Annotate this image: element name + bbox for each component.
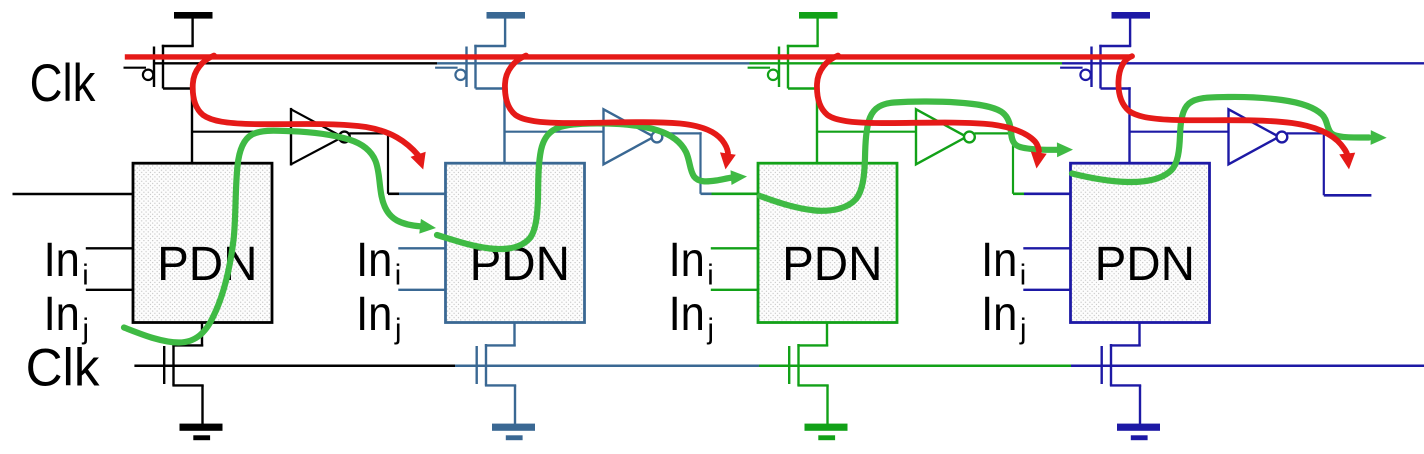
svg-text:i: i: [82, 259, 88, 291]
nmos M4 drain lead: [485, 344, 516, 346]
In_j wire stage 2: [398, 289, 446, 291]
output step-down wire stage 4: [1323, 132, 1325, 195]
ground symbol stage 3: [805, 424, 848, 431]
inverter U1 output wire: [349, 132, 389, 134]
pmos precharge transistor M3 source lead: [474, 45, 506, 47]
svg-text:PDN: PDN: [782, 238, 882, 291]
pmos M1 channel: [162, 45, 164, 89]
output stub stage 3: [1013, 193, 1024, 196]
In_j wire stage 4: [1023, 289, 1071, 291]
svg-text:In: In: [981, 287, 1017, 341]
nmos M2 source lead: [172, 384, 203, 386]
dynamic node wire stage 4: [1128, 87, 1130, 163]
nmos M6 gate plate: [788, 346, 790, 384]
top Clk rail green segment: [750, 62, 1063, 64]
svg-text:Clk: Clk: [26, 339, 101, 398]
svg-text:j: j: [707, 314, 714, 346]
inverter U3 output bubble: [964, 132, 975, 143]
ground symbol stage 4: [1117, 424, 1160, 431]
pmos M3 channel: [474, 45, 476, 89]
pmos M5 gate plate: [778, 47, 780, 88]
pmos M5 gate lead from Clk: [748, 67, 771, 69]
svg-text:i: i: [707, 259, 713, 291]
inverter U1 input wire: [192, 131, 292, 133]
pmos M5 gate inversion bubble: [768, 70, 778, 80]
ground symbol stage 2: [492, 424, 535, 431]
pmos precharge transistor M7 source lead: [1099, 45, 1131, 47]
inverter U2 input wire: [505, 131, 605, 133]
red precharge signal path arrow stage 3: [817, 56, 1039, 152]
top Clk rail blue segment: [437, 62, 750, 64]
inverter U4 triangle: [1229, 109, 1280, 164]
output step-down wire stage 3: [1012, 132, 1014, 194]
green evaluate signal path arrow stage 4: [1072, 97, 1369, 182]
pmos M1 drain lead: [163, 87, 193, 89]
In_i wire stage 3: [711, 247, 759, 249]
svg-text:In: In: [669, 287, 705, 341]
svg-text:In: In: [44, 233, 80, 287]
bottom Clk rail green segment: [759, 365, 1071, 368]
green evaluate signal path arrow stage 1: [124, 131, 421, 343]
PDN pull-down network block stage 1: [133, 163, 272, 322]
dynamic node wire stage 3: [816, 87, 818, 163]
stage 4 VDD supply bar: [1112, 12, 1151, 19]
stage 2 VDD stem wire: [504, 18, 506, 46]
nmos M8 gate plate: [1100, 346, 1102, 384]
svg-text:j: j: [1019, 314, 1026, 346]
output stub stage 1: [388, 193, 399, 196]
wire into stage 2 PDN input: [399, 193, 447, 196]
top Clk rail navy segment: [1062, 62, 1424, 64]
external input wire to stage 1 PDN: [13, 193, 134, 195]
pmos M5 drain lead: [788, 87, 818, 89]
pmos M7 channel: [1099, 45, 1101, 89]
pmos M1 gate inversion bubble: [143, 70, 153, 80]
red precharge signal path arrow stage 4: [1118, 56, 1347, 155]
inverter U2 triangle: [604, 109, 655, 164]
pmos precharge transistor M1 source lead: [162, 45, 194, 47]
inverter U1 output bubble: [339, 132, 350, 143]
pmos M1 gate lead from Clk: [124, 67, 147, 69]
inverter U3 output wire: [974, 132, 1014, 134]
nmos M2 drain lead: [172, 344, 203, 346]
red precharge signal path arrow stage 2: [505, 56, 728, 154]
bottom Clk rail blue segment: [455, 365, 759, 368]
final output stub stage 4: [1324, 194, 1372, 197]
pmos M1 gate plate: [153, 47, 155, 88]
nmos M6 source lead: [797, 384, 828, 386]
pmos M7 drain lead: [1101, 87, 1131, 89]
In_i wire stage 2: [398, 247, 446, 249]
svg-text:In: In: [669, 233, 705, 287]
pmos M7 gate plate: [1090, 47, 1092, 88]
pmos M3 gate plate: [465, 47, 467, 88]
In_i wire stage 4: [1023, 247, 1071, 249]
inverter U1 triangle: [290, 108, 292, 166]
nmos M8 drain lead: [1110, 344, 1141, 346]
stage 3 VDD stem wire: [816, 18, 818, 46]
dynamic node wire stage 1: [191, 87, 193, 163]
red precharge signal path arrow stage 1: [193, 56, 419, 156]
In_j wire stage 3: [711, 289, 759, 291]
nmos footer transistor M2 drain stub: [201, 323, 203, 347]
In_j wire stage 1: [86, 289, 134, 291]
pmos M3 gate inversion bubble: [455, 70, 465, 80]
pmos M5 channel: [787, 45, 789, 89]
inverter U3 triangle: [916, 109, 967, 164]
red highlighted Clk distribution line: [125, 54, 1131, 59]
nmos M4 source wire to ground: [514, 385, 516, 424]
svg-text:Clk: Clk: [30, 54, 96, 113]
top Clk rail black segment: [153, 62, 437, 64]
pmos M3 drain lead: [476, 87, 506, 89]
svg-text:PDN: PDN: [157, 238, 257, 291]
nmos M2 channel: [172, 344, 174, 386]
green evaluate signal path arrow stage 2: [437, 123, 733, 249]
output step-down wire stage 2: [699, 132, 701, 194]
stage 1 VDD supply bar: [174, 12, 213, 19]
svg-text:i: i: [395, 259, 401, 291]
nmos footer transistor M4 drain stub: [513, 323, 515, 347]
svg-text:In: In: [356, 287, 392, 341]
svg-text:In: In: [44, 287, 80, 341]
stage 3 VDD supply bar: [799, 12, 838, 19]
wire into stage 4 PDN input: [1024, 193, 1072, 196]
nmos footer transistor M6 drain stub: [826, 323, 828, 347]
bottom Clk rail black segment: [134, 365, 455, 368]
wire into stage 3 PDN input: [712, 193, 760, 196]
PDN pull-down network block stage 4: [1071, 163, 1210, 322]
pmos M3 gate lead from Clk: [435, 67, 458, 69]
nmos M4 source lead: [485, 384, 516, 386]
inverter U4 output wire: [1287, 132, 1327, 134]
pmos M7 gate lead from Clk: [1060, 67, 1083, 69]
svg-text:j: j: [394, 314, 401, 346]
nmos footer transistor M8 drain stub: [1138, 323, 1140, 347]
inverter U4 input wire: [1130, 131, 1230, 133]
nmos M2 gate plate: [163, 346, 165, 384]
svg-text:PDN: PDN: [1095, 238, 1195, 291]
ground symbol stage 1: [180, 424, 223, 431]
svg-text:i: i: [1020, 259, 1026, 291]
bottom Clk rail navy segment: [1071, 365, 1424, 368]
output step-down wire stage 1: [387, 132, 389, 194]
inverter U4 output bubble: [1277, 132, 1288, 143]
stage 1 VDD stem wire: [191, 18, 193, 46]
svg-text:In: In: [356, 233, 392, 287]
dynamic node wire stage 2: [503, 87, 505, 163]
nmos M6 channel: [797, 344, 799, 386]
nmos M8 source wire to ground: [1139, 385, 1141, 424]
PDN pull-down network block stage 2: [446, 163, 585, 322]
inverter U3 input wire: [817, 131, 917, 133]
nmos M6 drain lead: [797, 344, 828, 346]
In_i wire stage 1: [86, 247, 134, 249]
stage 4 VDD stem wire: [1129, 18, 1131, 46]
inverter U2 output bubble: [652, 132, 663, 143]
nmos M4 gate plate: [476, 346, 478, 384]
green evaluate signal path arrow stage 3: [760, 102, 1058, 211]
output stub stage 2: [701, 193, 712, 196]
nmos M2 source wire to ground: [201, 385, 203, 424]
stage 2 VDD supply bar: [487, 12, 526, 19]
PDN pull-down network block stage 3: [758, 163, 897, 322]
pmos precharge transistor M5 source lead: [787, 45, 819, 47]
nmos M8 channel: [1110, 344, 1112, 386]
nmos M6 source wire to ground: [826, 385, 828, 424]
inverter U2 output wire: [662, 132, 702, 134]
nmos M8 source lead: [1110, 384, 1141, 386]
svg-text:In: In: [981, 233, 1017, 287]
nmos M4 channel: [485, 344, 487, 386]
pmos M7 gate inversion bubble: [1080, 70, 1090, 80]
